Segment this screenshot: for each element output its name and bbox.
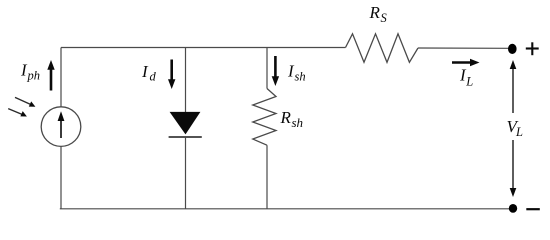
resistor Rsh — [253, 89, 276, 146]
svg-text:ph: ph — [27, 69, 41, 83]
svg-text:R: R — [280, 108, 292, 127]
wire shunt branch lower — [266, 145, 268, 209]
wire bottom — [60, 208, 512, 210]
svg-text:S: S — [381, 11, 388, 25]
svg-text:L: L — [465, 75, 473, 89]
light arrow 2 — [8, 109, 22, 115]
node - terminal — [509, 204, 517, 213]
minus sign — [526, 208, 540, 210]
current source circle — [41, 107, 81, 147]
current source arrow — [60, 118, 62, 138]
wire top: left corner to Rs — [61, 47, 346, 49]
wire diode branch upper — [185, 48, 187, 113]
diode D — [170, 112, 201, 134]
svg-text:sh: sh — [295, 70, 306, 84]
resistor RS — [346, 34, 419, 63]
arrow IL — [452, 61, 472, 64]
arrow Id — [170, 60, 173, 83]
plus sign — [526, 47, 539, 49]
node + terminal — [508, 44, 517, 54]
VL arrow up — [512, 66, 514, 113]
svg-text:R: R — [369, 3, 381, 22]
wire left upper — [60, 48, 62, 107]
svg-text:d: d — [150, 70, 157, 84]
svg-text:L: L — [515, 125, 523, 139]
arrow Iph — [50, 67, 53, 91]
wire: Rs to + terminal — [418, 47, 511, 49]
wire diode branch lower — [185, 137, 187, 209]
VL arrow down — [512, 140, 514, 191]
wire shunt branch upper — [266, 48, 268, 89]
arrow Ish — [274, 56, 277, 79]
svg-text:I: I — [141, 62, 149, 81]
svg-text:sh: sh — [292, 115, 304, 130]
wire left lower — [60, 146, 62, 208]
light arrow 1 — [15, 97, 30, 104]
